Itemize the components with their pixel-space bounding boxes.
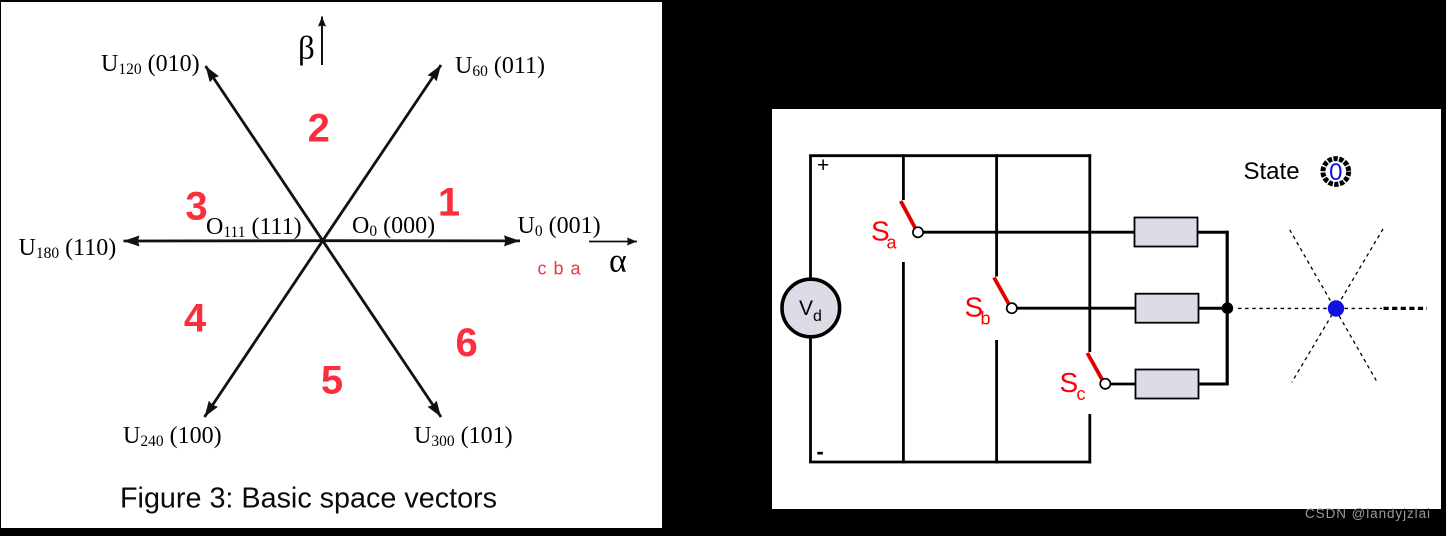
svg-text:State: State (1244, 158, 1300, 185)
dashed neutral line (1238, 307, 1382, 309)
alpha axis arrow (589, 241, 637, 243)
switch Sc contact (1100, 379, 1110, 389)
dc source Vd (782, 279, 840, 337)
svg-text:U60 (011): U60 (011) (455, 53, 545, 80)
wire: phase-c to resistor (1110, 383, 1137, 386)
star spoke 60-240 (1292, 229, 1383, 382)
wire: phase-c branch upper (1088, 154, 1091, 352)
svg-text:Figure 3: Basic space vectors: Figure 3: Basic space vectors (120, 483, 497, 515)
svg-text:0: 0 (1329, 159, 1342, 186)
sector number 1 foot serif (443, 212, 456, 215)
switch Sb contact (1007, 303, 1017, 313)
vector U0 (001) (323, 239, 520, 242)
svg-text:a: a (887, 233, 898, 253)
svg-text:+: + (817, 154, 829, 177)
resistor Ra (1135, 218, 1198, 247)
wire: phase-c branch lower (1088, 414, 1091, 463)
wire: phase-a to resistor (923, 231, 1137, 234)
wire: phase-a branch upper (902, 154, 905, 200)
left figure panel (1, 2, 662, 528)
bold dashed reference segment (1384, 307, 1428, 310)
switch Sb blade (994, 278, 1011, 308)
resistor Rc (1136, 370, 1199, 399)
wire: phase-b to resistor (1016, 307, 1137, 310)
wire: phase-b branch upper (995, 154, 998, 276)
svg-text:6: 6 (455, 321, 477, 365)
svg-text:S: S (1060, 367, 1079, 398)
wire: left rail (809, 156, 812, 462)
star spoke 120-300 (1290, 230, 1377, 382)
vector U240 (100) (205, 241, 323, 417)
switch Sa blade (901, 201, 917, 231)
wire: star point vertical (1226, 231, 1229, 386)
svg-text:α: α (609, 243, 627, 280)
junction dot (1222, 302, 1234, 314)
state circle (1323, 159, 1349, 185)
wire: resistor a to star point (1197, 231, 1229, 234)
vector U120 (010) (206, 66, 323, 241)
svg-text:U120 (010): U120 (010) (101, 51, 200, 78)
svg-text:c: c (1077, 384, 1086, 404)
svg-text:b: b (981, 309, 991, 329)
svg-text:1: 1 (438, 181, 460, 225)
svg-text:U0 (001): U0 (001) (518, 213, 601, 240)
wire: phase-b branch lower (995, 340, 998, 463)
wire: top rail (809, 154, 1091, 157)
svg-text:c b a: c b a (538, 259, 582, 279)
circuit panel (772, 109, 1441, 509)
svg-text:-: - (817, 439, 824, 464)
wire: resistor c to star point (1197, 383, 1229, 386)
vector U300 (101) (323, 241, 441, 417)
resistor Rb (1136, 294, 1199, 323)
switch Sc blade (1087, 353, 1104, 383)
beta axis arrow (321, 17, 323, 66)
vector U60 (011) (323, 65, 441, 241)
blue state vector dot (1328, 300, 1344, 316)
svg-text:3: 3 (185, 185, 207, 229)
svg-text:4: 4 (184, 296, 207, 340)
svg-text:O111 (111): O111 (111) (206, 214, 302, 241)
svg-text:U300 (101): U300 (101) (414, 423, 513, 450)
wire: resistor b to star point (1197, 307, 1229, 310)
svg-text:5: 5 (321, 358, 343, 402)
svg-text:U180 (110): U180 (110) (19, 235, 117, 262)
svg-text:β: β (298, 31, 315, 67)
wire: phase-a branch lower (902, 262, 905, 463)
wire: bottom rail (809, 461, 1091, 464)
svg-text:2: 2 (308, 106, 330, 150)
svg-text:O0 (000): O0 (000) (352, 213, 435, 240)
svg-text:U240 (100): U240 (100) (123, 423, 222, 450)
vector U180 (110) (124, 239, 323, 242)
svg-text:CSDN @landyjzlai: CSDN @landyjzlai (1305, 506, 1430, 521)
switch Sa contact (913, 227, 923, 237)
